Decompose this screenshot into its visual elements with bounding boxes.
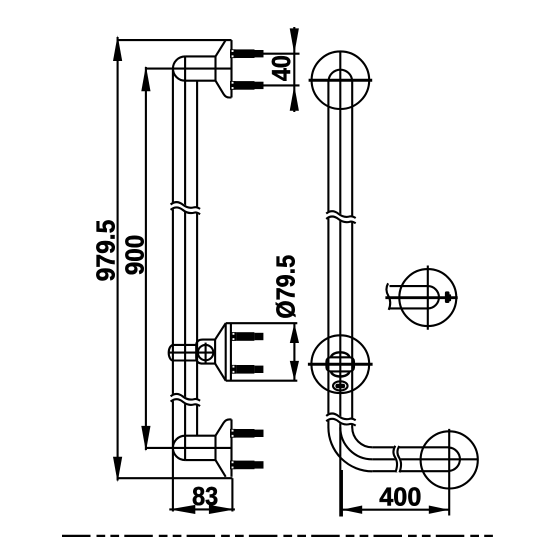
dimension 400 line xyxy=(342,506,449,514)
extension line 400 left xyxy=(341,470,343,517)
top flange (side view) xyxy=(216,40,232,97)
break symbol left bar lower xyxy=(171,394,201,406)
front view: top flange circle xyxy=(309,51,373,109)
svg-text:Ø79.5: Ø79.5 xyxy=(270,255,300,319)
extension line top (979.5, also top flange top edge) xyxy=(118,39,232,41)
svg-text:40: 40 xyxy=(266,55,296,81)
dimension 83 label xyxy=(192,481,218,511)
screw bottom-2 xyxy=(230,461,264,470)
front view: horizontal bar centerline xyxy=(372,458,478,460)
front view: bar right edge xyxy=(351,80,353,427)
extension line bottom (979.5, also bottom flange bottom edge) xyxy=(118,477,233,479)
extension line 83 right xyxy=(231,478,233,511)
front view: horizontal bar top edge xyxy=(372,446,449,448)
dimension dia 79.5 label xyxy=(270,255,300,319)
front view: grub screw slot xyxy=(335,384,345,389)
dimension 979.5 line xyxy=(113,35,122,482)
break symbol front bar upper xyxy=(326,211,356,223)
dimension 900 label xyxy=(119,235,149,275)
front view: middle flange circle xyxy=(308,335,373,393)
middle clamp screw head xyxy=(198,343,213,363)
middle clamp collar (side view) xyxy=(169,340,215,364)
top wall post (side view) xyxy=(173,56,216,80)
dimension 400 label xyxy=(379,481,421,511)
svg-text:979.5: 979.5 xyxy=(91,220,121,282)
dimension dia 79.5 line xyxy=(290,323,299,381)
front view: bar centerline xyxy=(339,51,341,517)
svg-text:900: 900 xyxy=(119,235,149,275)
front view: bend outer arc xyxy=(328,427,372,471)
bottom wall post (side view) xyxy=(173,436,216,460)
front view: clamp ring lower arc xyxy=(331,371,350,376)
svg-text:400: 400 xyxy=(379,481,421,511)
front view: clamp ring upper arc xyxy=(331,352,350,357)
dimension 40 label xyxy=(266,55,296,81)
dimension 83 line xyxy=(169,505,235,514)
extension line / centerline of bottom wall post (900) xyxy=(146,447,231,449)
screw bottom-1 xyxy=(230,429,264,438)
extension lines for 40 xyxy=(264,54,300,86)
front view: bend centerline arc xyxy=(340,427,372,459)
break symbol horizontal bar xyxy=(393,446,401,473)
screw middle-2 xyxy=(231,365,264,374)
detail view: break wavy edge xyxy=(387,283,391,310)
extension line / centerline of top wall post (900) xyxy=(146,68,232,70)
detail view: flange circle xyxy=(385,266,457,330)
screw top-1 xyxy=(230,49,264,58)
bottom flange (side view) xyxy=(216,419,232,476)
detail view: set screw xyxy=(445,291,451,303)
dimension 979.5 label xyxy=(91,220,121,282)
dimension 900 line xyxy=(141,66,150,452)
vertical bar left edge (side view) xyxy=(172,69,174,512)
front view: horizontal bar dome cap xyxy=(449,448,460,471)
front view: bend inner arc xyxy=(352,427,372,447)
dimension 40 line xyxy=(290,27,299,112)
svg-text:83: 83 xyxy=(192,481,218,511)
break symbol front bar lower xyxy=(326,413,356,425)
front view: horizontal bar bottom edge xyxy=(372,470,449,472)
detail view: post tube xyxy=(390,286,439,308)
screw middle-1 xyxy=(231,332,264,341)
break symbol left bar upper xyxy=(171,202,201,214)
vertical bar centerline (side view) xyxy=(184,56,186,460)
middle wall plate (side view) xyxy=(215,323,231,381)
front view: top post dome cap xyxy=(329,70,353,81)
vertical bar right edge (side view) xyxy=(196,81,198,436)
front view: grub screw oval xyxy=(333,381,348,390)
front view: bar left edge xyxy=(327,80,329,427)
front view: middle clamp collar xyxy=(326,357,354,371)
wall centerline (dash-dot) xyxy=(62,535,497,537)
screw top-2 xyxy=(230,81,264,90)
extension lines for dia 79.5 (plate top and bottom edges) xyxy=(226,323,298,381)
front view: right flange circle xyxy=(421,429,478,516)
